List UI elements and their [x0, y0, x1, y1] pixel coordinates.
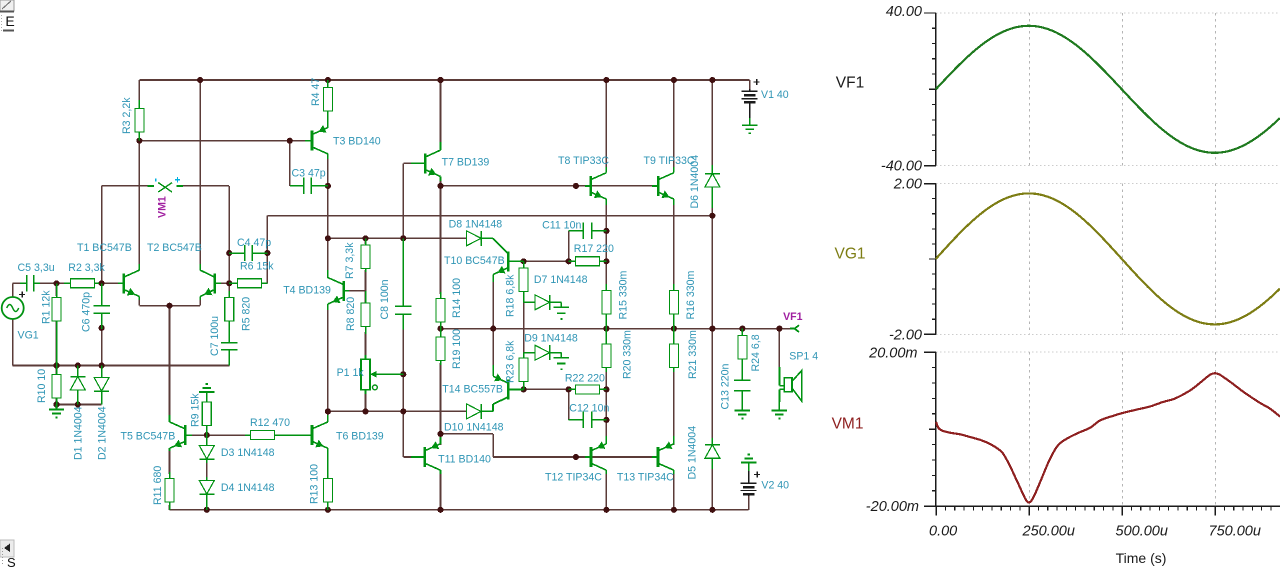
transistor T2 BC547B	[200, 270, 221, 296]
resistor R22 220	[569, 385, 607, 394]
resistor R16 330m	[669, 284, 678, 329]
wire C4 column	[228, 186, 230, 283]
wire R21 bottom to T13 emitter	[673, 370, 675, 445]
wire bottom -40V bus	[170, 509, 749, 511]
junction fork	[437, 431, 443, 437]
wire R3-T1 collector column	[138, 141, 140, 264]
junction bus-D4	[204, 507, 210, 513]
battery V2	[741, 471, 761, 496]
wire R3 bottom to T3 base row	[139, 140, 305, 142]
svg-text:2.00: 2.00	[893, 177, 922, 193]
T7 emitter stub	[440, 177, 442, 182]
wire D2 top lead	[101, 366, 103, 375]
resistor R18 6,8k	[519, 261, 528, 302]
resistor R2 3,3k	[64, 279, 99, 288]
diode D3 1N4148	[199, 435, 214, 463]
diode D9 1N4148	[524, 345, 553, 360]
T7 collector stub	[440, 142, 442, 150]
wire T9 emitter column	[673, 204, 675, 286]
wire R21 top wire	[673, 329, 675, 340]
svg-text:D1 1N4004: D1 1N4004	[73, 406, 85, 460]
wire C6 bottom wire	[101, 316, 103, 366]
speaker SP1	[779, 367, 801, 402]
T13 collector stub	[673, 470, 675, 474]
D7 ground jog down	[560, 302, 562, 307]
svg-text:40.00: 40.00	[886, 4, 922, 20]
wire T11 base column	[402, 411, 404, 457]
transistor T12 TIP34C	[585, 441, 606, 470]
plot frame VF1	[924, 13, 1280, 166]
transistor T9 TIP33C	[652, 173, 674, 199]
svg-text:R5 820: R5 820	[241, 297, 253, 331]
resistor R12 470	[245, 431, 306, 440]
wire VM1 row left segment	[102, 185, 153, 187]
time axis	[936, 506, 1280, 515]
junction R20-R22	[603, 386, 609, 392]
svg-text:T4 BD139: T4 BD139	[283, 285, 331, 297]
T8 emitter stub	[605, 199, 607, 205]
wire wire2 VAS row	[328, 237, 468, 239]
resistor R15 330m	[602, 284, 611, 329]
junction T5 base node	[204, 432, 210, 438]
diode D6 1N4004	[705, 165, 720, 208]
wire VM1 feedback column	[101, 186, 103, 283]
capacitor C7 100u	[221, 335, 237, 366]
plot VM1 curve	[936, 373, 1280, 502]
resistor R19 100	[436, 329, 445, 365]
T4 collector stub	[327, 270, 329, 278]
junction C6-gnd bus	[99, 362, 105, 368]
ground V1 ground	[742, 125, 757, 133]
junction C6 lead	[99, 325, 105, 331]
svg-text:C12 10n: C12 10n	[569, 403, 609, 415]
wire D5 anode to bus	[711, 468, 713, 510]
svg-text:C11 10n: C11 10n	[542, 220, 581, 232]
svg-text:R15 330m: R15 330m	[618, 270, 630, 319]
junction T14 base	[521, 386, 527, 392]
wire D3-D4 link	[206, 462, 208, 479]
junction R10-D1 row	[53, 401, 59, 407]
wire T8 T9 base row	[441, 185, 586, 187]
svg-text:R14 100: R14 100	[451, 278, 463, 318]
junction R1-gnd bus	[53, 362, 59, 368]
wire fork jog horizontal	[441, 433, 494, 435]
wire R10 column	[56, 366, 58, 376]
svg-text:T14 BC557B: T14 BC557B	[442, 384, 503, 396]
svg-text:C5 3,3u: C5 3,3u	[18, 262, 55, 274]
capacitor C4 47p	[229, 245, 267, 261]
svg-text:C3 47p: C3 47p	[292, 168, 326, 180]
ammeter VM1	[147, 177, 183, 192]
resistor R10 10	[52, 366, 61, 405]
voltage pin VF1	[790, 325, 799, 332]
junction R2-T1 base	[99, 280, 105, 286]
diode D2 1N4004	[94, 366, 109, 405]
svg-text:20.00m: 20.00m	[868, 345, 917, 361]
svg-text:R19 100: R19 100	[451, 329, 463, 369]
wire C8 wiper-D10 column handled above	[402, 373, 404, 375]
transistor T14 BC557B	[493, 374, 523, 400]
capacitor C13 220n	[734, 372, 750, 409]
R10 ground stub	[56, 405, 58, 410]
wire R8-P1 link	[365, 332, 367, 357]
svg-text:C7 100u: C7 100u	[209, 316, 221, 356]
ground D7 ground	[554, 307, 569, 319]
svg-text:D9 1N4148: D9 1N4148	[524, 333, 578, 345]
wire T6 emitter to R13	[327, 450, 329, 474]
resistor R5 820	[225, 291, 234, 338]
wire D3 top lead	[206, 435, 208, 445]
T2 emitter stub	[199, 296, 201, 300]
wire output to VF1 pin	[779, 328, 790, 330]
wire T4 base wire	[349, 290, 366, 292]
wire T12 collector to bus	[605, 473, 607, 510]
junction bus-T11	[437, 507, 443, 513]
wire emitter column T10-T14	[492, 281, 494, 366]
T3 emitter stub	[327, 111, 329, 128]
wire emitter join row	[139, 305, 200, 307]
svg-text:D5 1N4004: D5 1N4004	[687, 426, 699, 480]
wire D1 top lead	[77, 366, 79, 375]
wire C7 bottom wire	[228, 355, 230, 366]
svg-text:R2 3,3k: R2 3,3k	[68, 262, 105, 274]
plot frame VM1	[924, 352, 1280, 506]
wire V1 rail corner down	[749, 80, 751, 89]
UI fragment E button	[3, 13, 15, 31]
diode D8 1N4148	[466, 231, 493, 246]
UI fragment bottom-left	[0, 540, 16, 567]
potentiometer P1	[361, 355, 403, 394]
junction output-R24	[739, 326, 745, 332]
svg-text:D3 1N4148: D3 1N4148	[221, 447, 275, 459]
junction T2 base	[226, 280, 232, 286]
svg-text:R6 15k: R6 15k	[240, 261, 274, 273]
junction C11 right	[603, 228, 609, 234]
wire wire1 feedback row	[267, 215, 712, 217]
ground R9 ground (inverted)	[199, 384, 214, 392]
svg-text:D6 1N4004: D6 1N4004	[689, 155, 701, 209]
junction D1-gnd bus	[75, 362, 81, 368]
svg-text:SP1 4: SP1 4	[789, 351, 818, 363]
junction D10-T4 row	[325, 408, 331, 414]
transistor T4 BD139	[328, 278, 349, 304]
wire R12 to T6 base	[278, 434, 306, 436]
junction output-SP1	[776, 326, 782, 332]
svg-text:C8 100n: C8 100n	[379, 279, 391, 319]
wire T8 collector wire	[605, 80, 607, 168]
svg-text:R21 330m: R21 330m	[687, 330, 699, 379]
capacitor C12 10n	[569, 412, 607, 428]
C7 note none	[228, 365, 230, 367]
ground SP1 ground	[772, 411, 787, 419]
wire R20 bottom wire	[605, 370, 607, 389]
wire speaker branch	[778, 329, 780, 369]
wire T2 base wire	[221, 282, 229, 284]
svg-text:T7 BD139: T7 BD139	[442, 157, 490, 169]
junction wiper	[400, 371, 406, 377]
wire C12 left column	[568, 389, 570, 420]
junction R3 bottom	[136, 138, 142, 144]
svg-text:V1 40: V1 40	[761, 89, 789, 101]
svg-text:VG1: VG1	[18, 330, 39, 342]
wire D7-D9 column	[523, 302, 525, 352]
wire T8-T9 base link	[592, 185, 652, 187]
svg-text:R1 12k: R1 12k	[41, 290, 53, 324]
svg-text:R9 15k: R9 15k	[190, 393, 202, 427]
transistor T11 BD140	[411, 441, 441, 470]
T12 emitter stub	[605, 436, 607, 444]
junction bus-T13	[671, 507, 677, 513]
wire C11 left column	[568, 231, 570, 261]
junction rail-R4	[325, 77, 331, 83]
svg-text:R3 2,2k: R3 2,2k	[121, 97, 133, 134]
wire C5 to R1 junction	[39, 282, 66, 284]
junction C11 left	[566, 258, 572, 264]
svg-text:-40.00: -40.00	[881, 158, 922, 174]
svg-text:D4 1N4148: D4 1N4148	[221, 482, 275, 494]
svg-text:-20.00m: -20.00m	[866, 499, 919, 515]
wire T2 emitter wire	[199, 299, 201, 306]
junction P1 bottom	[362, 408, 368, 414]
transistor T13 TIP34C	[652, 441, 674, 470]
wire base row input	[13, 282, 22, 284]
svg-text:D7 1N4148: D7 1N4148	[534, 274, 588, 286]
junction C3 left	[287, 138, 293, 144]
svg-text:C4 47p: C4 47p	[237, 237, 271, 249]
resistor R7 3,3k	[361, 238, 370, 272]
wire D2 bottom lead	[101, 393, 103, 405]
junction output-D5	[709, 326, 715, 332]
svg-text:R4 47: R4 47	[310, 78, 322, 106]
D9 ground jog down	[560, 353, 562, 358]
wire fork to T11 emitter	[440, 434, 442, 445]
transistor T10 BC547B	[493, 251, 523, 274]
wire D5 cathode wire	[711, 329, 713, 438]
wire VG1 bottom lead	[12, 319, 14, 366]
wire R15 top lead wire	[605, 261, 607, 286]
wire R15-R20 junction wires	[605, 318, 607, 340]
wire R18-D7 column	[523, 269, 525, 302]
svg-text:T13 TIP34C: T13 TIP34C	[617, 472, 674, 484]
wire C6 column	[101, 283, 103, 303]
resistor R23 6,8k	[519, 353, 528, 390]
transistor T6 BD139	[306, 422, 328, 448]
svg-text:R17 220: R17 220	[574, 243, 614, 255]
capacitor C8 100n	[395, 238, 411, 329]
wire ground bus	[13, 365, 230, 367]
wire D1 D2 bottom row	[57, 404, 102, 406]
svg-text:VF1: VF1	[836, 75, 864, 92]
wire T12 T13 base row	[493, 456, 585, 458]
wire R7 top lead wire	[365, 238, 367, 244]
wire R3 top lead column	[138, 80, 140, 141]
wire T7 base jog	[403, 162, 411, 164]
wire R16 bottom wire	[673, 318, 675, 329]
junction rail-T2	[197, 77, 203, 83]
svg-text:T9 TIP33C: T9 TIP33C	[644, 155, 695, 167]
svg-text:T11 BD140: T11 BD140	[438, 454, 491, 466]
junction C12 left col	[566, 386, 572, 392]
wire R2 to T1 base	[98, 282, 118, 284]
wire R10 bottom wire	[56, 398, 58, 405]
svg-text:D8 1N4148: D8 1N4148	[449, 219, 503, 231]
transistor T1 BC547B	[118, 270, 139, 296]
ground R10 ground	[49, 410, 64, 418]
svg-text:T8 TIP33C: T8 TIP33C	[558, 155, 609, 167]
wire VG1 top lead	[12, 283, 14, 297]
wire D1 bottom lead	[77, 393, 79, 405]
junction C5-R1	[53, 280, 59, 286]
svg-text:VF1: VF1	[783, 311, 803, 323]
T8 collector stub	[605, 167, 607, 173]
svg-text:VM1: VM1	[157, 196, 169, 218]
wire T9 collector wire	[673, 80, 675, 168]
svg-text:C13 220n: C13 220n	[720, 363, 732, 409]
junction output-R16	[671, 326, 677, 332]
resistor R24 6,8	[738, 329, 747, 372]
wire R5-C7 link	[228, 326, 230, 337]
resistor R9 15k	[202, 399, 211, 435]
wire D10 row	[328, 410, 467, 412]
wire T4 emitter column	[327, 309, 329, 411]
transistor T5 BC547B	[170, 422, 193, 448]
diode D7 1N4148	[524, 295, 553, 310]
diode D4 1N4148	[199, 477, 214, 510]
resistor R4 47	[323, 80, 332, 128]
svg-text:R16 330m: R16 330m	[685, 270, 697, 319]
svg-text:T5 BC547B: T5 BC547B	[121, 431, 176, 443]
junction T12 base	[573, 454, 579, 460]
wire tail column	[169, 306, 171, 416]
wire T4 collector stub wire	[327, 238, 329, 271]
junction bus-D5	[709, 507, 715, 513]
wire P1 bottom wire	[365, 392, 367, 411]
wire R1 bottom wire	[56, 320, 58, 366]
junction wire2-T3	[325, 235, 331, 241]
wire R24 branch top	[741, 329, 743, 333]
transistor T8 TIP33C	[585, 173, 606, 199]
wire T5 emitter wire	[169, 450, 171, 474]
svg-text:250.00u: 250.00u	[1022, 524, 1075, 540]
T14 emitter stub	[492, 365, 494, 376]
svg-text:VG1: VG1	[834, 246, 865, 263]
wire T7 collector wire	[440, 80, 442, 143]
junction R17 right	[603, 258, 609, 264]
junction rail-D6	[709, 77, 715, 83]
wire D6 top wire	[711, 80, 713, 167]
svg-text:R10 10: R10 10	[36, 369, 48, 403]
svg-text:750.00u: 750.00u	[1209, 524, 1261, 540]
wire D8 to T10 collector	[493, 238, 508, 254]
svg-text:R22 220: R22 220	[565, 373, 605, 385]
T9 collector stub	[673, 167, 675, 173]
resistor R3 2,2k	[135, 100, 144, 141]
T6 collector stub	[327, 415, 329, 422]
R9 ground stub	[206, 392, 208, 400]
C13 ground stub	[741, 409, 743, 411]
wire T5 base wire	[192, 434, 207, 436]
plot VF1 curve	[936, 26, 1280, 153]
svg-text:T10 BC547B: T10 BC547B	[444, 255, 505, 267]
resistor R11 680	[165, 472, 174, 510]
T4 emitter stub	[327, 304, 329, 310]
wire VM1 row right segment	[177, 185, 229, 187]
T9 emitter stub	[673, 199, 675, 205]
junction C4 right	[264, 250, 270, 256]
T1 emitter stub	[138, 296, 140, 300]
junction wire2-R7	[362, 235, 368, 241]
svg-text:R20 330m: R20 330m	[622, 330, 634, 379]
svg-text:0.00: 0.00	[929, 524, 957, 540]
svg-text:R7 3,3k: R7 3,3k	[344, 242, 356, 279]
diode D1 1N4004	[70, 366, 85, 405]
wire T7 base column	[402, 163, 404, 238]
wire D10 to T14 collector	[492, 404, 494, 411]
svg-text:P1 1k: P1 1k	[337, 367, 365, 379]
wire C8 bottom column	[402, 329, 404, 411]
wire output row	[441, 328, 791, 330]
junction C12 right	[603, 417, 609, 423]
ground V2 ground (inverted)	[741, 455, 756, 463]
battery V1	[742, 79, 760, 118]
svg-text:500.00u: 500.00u	[1116, 524, 1168, 540]
resistor R1 12k	[52, 283, 61, 365]
junction wire1-D6	[709, 213, 715, 219]
transistor T3 BD140	[305, 125, 328, 154]
wire fork jog vertical	[492, 434, 494, 457]
resistor R6 15k	[229, 279, 267, 288]
D9 ground jog	[553, 352, 561, 354]
svg-text:D10 1N4148: D10 1N4148	[444, 422, 504, 434]
T6 emitter stub	[327, 448, 329, 474]
T11 emitter stub	[440, 437, 442, 444]
SP1 ground stub	[778, 402, 780, 411]
junction rail-T9	[671, 77, 677, 83]
junction rail-T7	[437, 77, 443, 83]
V2 ground stub	[748, 463, 750, 472]
svg-text:V2 40: V2 40	[761, 480, 789, 492]
wire D6 anode wire	[711, 205, 713, 216]
wire T11 base jog	[403, 456, 411, 458]
V1 ground stub	[749, 118, 751, 125]
wire T1 emitter to join row	[138, 299, 140, 306]
wire T2 collector column	[199, 80, 201, 264]
diode D10 1N4148	[466, 404, 493, 419]
junction R14-R19	[437, 326, 443, 332]
junction C4 left	[226, 250, 232, 256]
junction wire2-C8	[400, 235, 406, 241]
junction C3 right	[325, 183, 331, 189]
wire T6 collector wire	[327, 411, 329, 416]
wire R13 bottom to bus	[327, 505, 329, 510]
junction T10 base	[521, 258, 527, 264]
svg-text:T6 BD139: T6 BD139	[336, 431, 384, 443]
junction D1 bottom	[75, 401, 81, 407]
T5 collector stub	[169, 415, 171, 422]
ground D9 ground	[554, 358, 569, 370]
T5 emitter stub	[169, 448, 171, 451]
capacitor C3 47p	[290, 178, 328, 194]
wire +40V rail	[139, 79, 749, 81]
svg-text:T1 BC547B: T1 BC547B	[77, 242, 132, 254]
wire R9 bottom wire	[206, 429, 208, 435]
svg-text:C6 470p: C6 470p	[81, 292, 93, 332]
wire T7-R14 column	[440, 186, 442, 294]
svg-text:D2 1N4004: D2 1N4004	[97, 406, 109, 460]
svg-text:R24 6,8: R24 6,8	[750, 334, 762, 371]
svg-text:R13 100: R13 100	[309, 464, 321, 504]
capacitor C11 10n	[569, 223, 607, 239]
